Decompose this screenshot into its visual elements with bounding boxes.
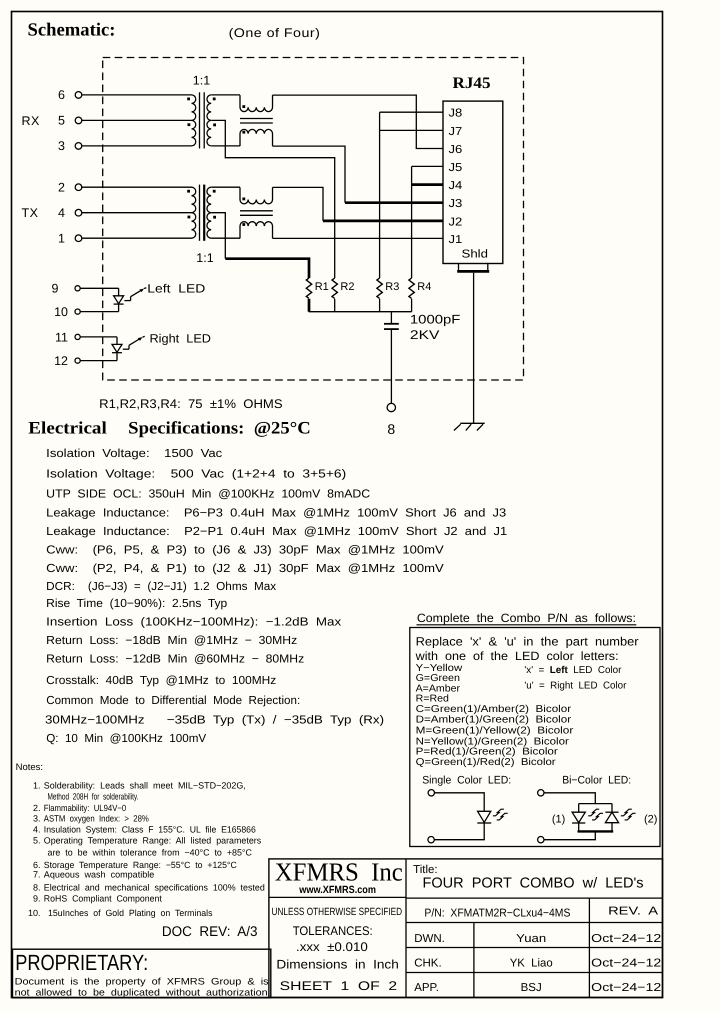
transformer T2 (TX) core [199,185,201,241]
svg-text:Q=Green(1)/Red(2) Bicolor: Q=Green(1)/Red(2) Bicolor [416,757,557,768]
pin 9 terminal [75,286,80,291]
wire node J8 [380,111,443,113]
svg-text:REV. A: REV. A [608,906,658,918]
svg-text:Oct−24−12: Oct−24−12 [591,933,661,945]
wire node J5 [412,165,443,167]
svg-text:Schematic:: Schematic: [28,21,116,41]
single color LED diode [478,811,491,822]
wire node J3 (thick) [345,201,443,204]
choke L1 (RX) polarity dots [242,105,245,108]
LED Right (D2) [116,337,118,345]
wire J5/J4 junction down to resistor R4 [411,166,413,278]
svg-text:BSJ: BSJ [521,982,542,994]
svg-text:'x' = Left LED Color: 'x' = Left LED Color [524,665,622,676]
svg-text:FOUR PORT COMBO w/ LED's: FOUR PORT COMBO w/ LED's [423,876,644,892]
transformer T1 (RX) left winding [192,95,196,146]
svg-text:DCR: (J6−J3) = (J2−J1) 1: DCR: (J6−J3) = (J2−J1) 1.2 Ohms Max [46,580,276,593]
bi-color LED D2 (up) [611,804,613,813]
svg-text:R1,R2,R3,R4: 75 ±1% OHMS: R1,R2,R3,R4: 75 ±1% OHMS [99,397,282,411]
bi-color top rail [579,803,612,805]
bi-color bottom rail (thick) [578,830,614,832]
single LED emission squiggles [493,809,504,816]
transformer T2 (TX) left winding [192,187,196,238]
pin 2 terminal [75,184,82,191]
pin 6 terminal [75,92,82,99]
svg-text:1:1: 1:1 [196,251,213,265]
svg-text:Insulation System: Class F: Insulation System: Class F 155°C. UL fil… [44,825,256,835]
svg-text:with one of the LED color: with one of the LED color letters: [415,649,619,663]
choke L2 (TX) top winding [240,187,273,204]
svg-text:Leakage Inductance: P6−P3: Leakage Inductance: P6−P3 0.4uH Max @1MH… [46,506,506,519]
pin 11 terminal [75,334,80,339]
RJ45 shield tab [458,264,460,272]
svg-text:J4: J4 [449,180,463,192]
svg-text:DOC REV: A/3: DOC REV: A/3 [162,923,258,939]
wire TX transformer top to choke L2 top [211,186,240,188]
svg-text:9.: 9. [33,894,41,904]
title block divider under title [406,897,663,899]
svg-text:are to be within tolerance: are to be within tolerance from −40°C to… [48,848,253,858]
leader arrow Left LED [124,300,130,302]
svg-text:12: 12 [54,354,68,368]
svg-text:Dimensions in Inch: Dimensions in Inch [276,958,398,972]
svg-text:R3: R3 [385,281,399,293]
wire RX transformer bottom to choke L1 bottom [211,145,240,147]
wire TX transformer bottom to choke L2 bottom [211,237,240,239]
svg-text:Common Mode to Differential: Common Mode to Differential Mode Rejecti… [46,694,300,707]
svg-text:Q: 10 Min @100KHz 100mV: Q: 10 Min @100KHz 100mV [46,732,206,745]
svg-text:Single Color LED:: Single Color LED: [422,774,511,786]
svg-text:(1): (1) [552,814,565,826]
wire RX center tap to resistor R2 [211,120,335,278]
svg-text:CHK.: CHK. [414,958,441,970]
wire TX center tap to resistor R1 (thick) [211,213,225,259]
svg-text:Solderability: Leads shall: Solderability: Leads shall meet MIL−STD−… [44,781,246,791]
svg-text:Aqueous wash compatible: Aqueous wash compatible [44,870,154,880]
svg-text:.xxx ±0.010: .xxx ±0.010 [296,940,368,954]
svg-text:Right LED: Right LED [150,331,212,345]
svg-text:UNLESS OTHERWISE SPECIFIED: UNLESS OTHERWISE SPECIFIED [272,906,403,918]
pin 10 terminal [75,309,80,314]
svg-text:4: 4 [58,206,65,220]
svg-text:15uInches of Gold Plating: 15uInches of Gold Plating on Terminals [48,908,213,918]
svg-text:R1: R1 [315,281,329,293]
transformer T2 (TX) right winding [207,187,211,238]
choke L1 (RX) top winding [240,95,273,112]
svg-text:Yuan: Yuan [516,933,546,945]
transformer T2 (TX) polarity dots [187,190,190,193]
dashed isolation boundary box [103,58,524,381]
wire node J2 (thick) [323,220,443,223]
svg-text:'u' = Right LED Color: 'u' = Right LED Color [524,680,627,691]
wire node J4 (thick) [412,183,443,186]
pin 5 terminal [75,117,82,124]
svg-text:1.: 1. [33,781,41,791]
svg-text:J3: J3 [449,198,463,210]
svg-text:Isolation Voltage: 1500 V: Isolation Voltage: 1500 Vac [46,447,222,460]
svg-text:J5: J5 [449,162,463,174]
LED Left (D1) [118,288,120,296]
svg-text:Return Loss: −12dB Min @60: Return Loss: −12dB Min @60MHz − 80MHz [46,652,304,665]
svg-text:Specifications: @25°C: Specifications: @25°C [128,417,311,437]
wire J8/J7 junction down to resistor R3 [379,112,381,278]
svg-text:2: 2 [58,180,65,194]
transformer T1 (RX) core [199,92,201,148]
wire capacitor to pin 8 [390,329,392,403]
RJ45 connector box [443,101,503,263]
wire Left LED to pin 10 [80,311,118,313]
svg-text:Cww: (P2, P4, & P1) to: Cww: (P2, P4, & P1) to (J2 & J1) 30pF Ma… [46,562,444,575]
wire RX transformer top to choke L1 top [211,94,240,96]
svg-text:8.: 8. [33,882,41,892]
svg-text:www.XFMRS.com: www.XFMRS.com [298,884,376,896]
svg-text:2KV: 2KV [410,328,440,342]
svg-text:Return Loss: −18dB Min @1M: Return Loss: −18dB Min @1MHz − 30MHz [46,634,297,647]
svg-text:Method 208H for solderabili: Method 208H for solderability. [48,792,139,802]
transformer T1 (RX) right winding [207,95,211,146]
svg-text:UTP SIDE OCL: 350uH Min @: UTP SIDE OCL: 350uH Min @100KHz 100mV 8m… [46,488,370,501]
pin 8 terminal [387,403,395,411]
wire pin 3 to transformer [82,145,192,147]
pin 1 terminal [75,235,82,242]
combo option box [410,628,660,847]
svg-text:Crosstalk: 40dB Typ @1MHz: Crosstalk: 40dB Typ @1MHz to 100MHz [46,674,276,687]
choke L2 (TX) polarity dots [242,198,245,201]
wire pin 9 to Left LED [80,287,118,289]
wire RX choke L1 top output to node J6 [273,95,444,148]
choke L1 (RX) core [240,118,273,120]
wire bus to capacitor C1 [390,312,392,323]
svg-text:RX: RX [22,114,41,128]
svg-text:Notes:: Notes: [16,762,43,773]
wire termination bus [309,311,412,313]
wire pin 6 to transformer [82,94,192,96]
svg-text:PROPRIETARY:: PROPRIETARY: [15,950,148,975]
svg-text:10.: 10. [28,908,41,918]
svg-text:ASTM oxygen Index: > 28%: ASTM oxygen Index: > 28% [44,813,149,823]
svg-text:2.: 2. [33,803,41,813]
wire pin 11 to Right LED [80,336,117,338]
wire pin 5 to transformer [82,119,192,121]
bi-color LED terminal bottom [538,837,544,843]
wire pin 1 to transformer [82,237,192,239]
svg-text:R2: R2 [340,281,354,293]
svg-text:Rise Time (10−90%): 2.5ns: Rise Time (10−90%): 2.5ns Typ [46,597,228,610]
svg-text:R4: R4 [417,281,431,293]
svg-text:10: 10 [54,305,68,319]
title block divider under company [269,896,406,898]
svg-text:Shld: Shld [462,249,489,261]
wire resistor bottoms [308,299,311,312]
svg-text:Flammability: UL94V−0: Flammability: UL94V−0 [44,803,126,813]
svg-text:DWN.: DWN. [414,933,445,945]
title block divider vertical main [405,859,407,998]
svg-text:Electrical and mechanical s: Electrical and mechanical specifications… [44,882,265,892]
svg-text:(2): (2) [644,814,657,826]
svg-text:RJ45: RJ45 [453,75,491,92]
svg-text:M=Green(1)/Yellow(2) Bicolor: M=Green(1)/Yellow(2) Bicolor [416,725,574,736]
svg-text:11: 11 [55,330,68,344]
wire node J7 [380,129,443,131]
svg-text:Insertion Loss (100KHz−100MH: Insertion Loss (100KHz−100MHz): −1.2dB M… [46,616,341,629]
svg-text:P=Red(1)/Green(2) Bicolor: P=Red(1)/Green(2) Bicolor [416,747,559,758]
title block grid lines [406,922,663,924]
svg-text:Operating Temperature Range:: Operating Temperature Range: All listed … [44,836,262,846]
svg-text:Replace 'x' & 'u' in the: Replace 'x' & 'u' in the part number [416,634,639,648]
pin 3 terminal [75,143,82,150]
resistor R1 [306,278,311,299]
choke L1 (RX) bottom winding [240,129,273,146]
svg-text:4.: 4. [33,825,41,835]
capacitor C1 1000pF [384,323,399,325]
pin 12 terminal [75,358,80,363]
svg-text:Left LED: Left LED [147,281,205,295]
svg-text:5: 5 [58,114,65,128]
svg-text:SHEET 1 OF 2: SHEET 1 OF 2 [280,979,398,993]
svg-text:Leakage Inductance: P2−P1: Leakage Inductance: P2−P1 0.4uH Max @1MH… [46,525,507,538]
bi-color LED D1 (down) [578,804,580,813]
svg-text:Oct−24−12: Oct−24−12 [591,958,661,970]
proprietary box [13,949,271,998]
wire bi-color top [544,793,595,804]
svg-text:Complete the Combo P/N as: Complete the Combo P/N as follows: [417,611,636,625]
wire bi-color bottom [544,831,595,839]
D2 emission squiggles [621,809,632,816]
wire TX choke L2 top output toward J2 [273,187,324,221]
resistor R4 [409,278,414,299]
svg-text:TX: TX [22,206,39,220]
svg-text:RoHS Compliant Component: RoHS Compliant Component [44,894,162,904]
wire RX choke L1 bottom output toward J3 [273,146,346,203]
svg-text:Cww: (P6, P5, & P3) to: Cww: (P6, P5, & P3) to (J6 & J3) 30pF Ma… [46,544,444,557]
wire TX choke L2 bottom output to node J1 [273,237,444,239]
svg-text:30MHz−100MHz −35dB Typ: 30MHz−100MHz −35dB Typ (Tx) / −35dB Typ … [45,714,384,727]
resistor R3 [377,278,382,299]
wire single LED bottom [434,823,484,840]
svg-text:Title:: Title: [413,864,438,876]
resistor R2 [332,278,337,299]
svg-text:(One of Four): (One of Four) [229,26,321,40]
svg-text:J6: J6 [449,144,463,156]
svg-text:3: 3 [58,139,65,153]
svg-text:YK Liao: YK Liao [510,958,553,970]
svg-text:5.: 5. [33,836,41,846]
svg-text:Bi−Color LED:: Bi−Color LED: [562,774,631,786]
transformer T1 (RX) polarity dots [187,98,190,101]
leader arrow Right LED [123,348,129,350]
single color LED terminal bottom [428,837,434,843]
wire single LED top [435,793,485,812]
svg-text:1000pF: 1000pF [410,313,461,327]
wire pin 2 to transformer [82,186,192,188]
svg-text:8: 8 [387,421,395,437]
svg-text:P/N: XFMATM2R−CLxu4−4MS: P/N: XFMATM2R−CLxu4−4MS [424,908,570,920]
wire pin 4 to transformer [82,212,192,214]
svg-text:9: 9 [52,282,59,296]
svg-text:XFMRS Inc: XFMRS Inc [275,858,403,887]
title block outer box [269,859,663,998]
svg-text:7.: 7. [33,870,41,880]
svg-text:Isolation Voltage: 500 Va: Isolation Voltage: 500 Vac (1+2+4 to 3+5… [46,467,346,480]
svg-text:1:1: 1:1 [193,74,210,88]
svg-text:6: 6 [58,88,65,102]
svg-text:3.: 3. [33,813,41,823]
D1 emission squiggles [588,809,599,816]
pin 4 terminal [75,209,82,216]
svg-text:J2: J2 [449,216,463,228]
wire shield to ground [473,273,475,423]
svg-text:J1: J1 [449,234,463,246]
choke L2 (TX) core [240,210,273,212]
svg-text:J7: J7 [449,126,463,138]
svg-text:1: 1 [58,231,65,245]
bi-color LED terminal top [538,790,544,796]
single color LED terminal top [428,790,434,796]
svg-text:Oct−24−12: Oct−24−12 [591,982,661,994]
svg-text:Document is the property o: Document is the property of XFMRS Group … [15,976,269,987]
svg-text:D=Amber(1)/Green(2) Bicolor: D=Amber(1)/Green(2) Bicolor [416,714,572,725]
choke L2 (TX) bottom winding [240,222,273,239]
svg-text:APP.: APP. [414,982,439,994]
wire Right LED to pin 12 [80,360,117,362]
svg-text:TOLERANCES:: TOLERANCES: [293,924,373,938]
svg-text:not allowed to be duplicat: not allowed to be duplicated without aut… [15,988,271,999]
svg-text:Electrical: Electrical [28,417,107,437]
ground symbol [460,422,484,424]
svg-text:J8: J8 [449,108,463,120]
svg-text:R=Red: R=Red [416,694,449,705]
